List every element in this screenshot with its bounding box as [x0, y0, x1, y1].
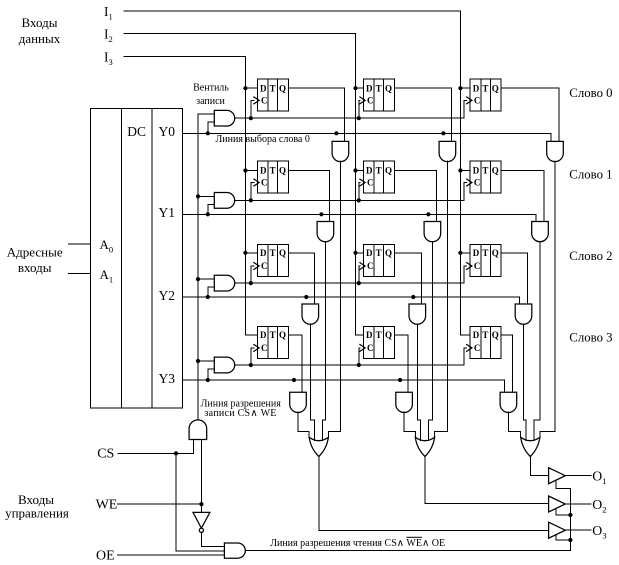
wire Q output word3 col3 — [501, 335, 512, 393]
wire address input A0 — [68, 243, 90, 245]
svg-text:Q: Q — [492, 83, 499, 93]
svg-text:Q: Q — [279, 330, 286, 340]
wire read out word3 col3 to OR — [508, 412, 520, 438]
svg-text:Q: Q — [385, 83, 392, 93]
node Y0 write-gate tap — [206, 131, 210, 135]
svg-text:T: T — [270, 248, 276, 258]
and-gate write W2 — [214, 275, 234, 291]
wire CS to read AND — [176, 453, 224, 551]
svg-text:C: C — [474, 178, 481, 188]
and-gate read word1 col3 — [532, 222, 549, 242]
wire D input col2 word2 — [356, 252, 364, 254]
svg-text:Y2: Y2 — [159, 288, 176, 303]
svg-text:T: T — [482, 83, 488, 93]
wire read out word2 col2 to OR — [417, 324, 420, 441]
flip-flop DTQ word2 col3 — [467, 245, 501, 277]
flip-flop DTQ word3 col1 — [254, 327, 288, 359]
node C tap col2 word1 — [357, 198, 361, 202]
flip-flop DTQ word0 col3 — [467, 79, 501, 111]
and-gate read word0 col1 — [332, 141, 349, 161]
and-gate read word2 col2 — [409, 304, 426, 324]
svg-text:CS: CS — [97, 447, 114, 462]
decoder divider 1 — [121, 108, 123, 408]
svg-text:C: C — [367, 178, 374, 188]
wire enable stub O1 — [556, 480, 570, 488]
wire enable stub O3 — [556, 535, 570, 540]
and-gate read word3 col2 — [396, 392, 413, 412]
flip-flop DTQ word0 col1 — [254, 79, 288, 111]
node data tap col2 word1 — [353, 168, 357, 172]
and-gate read word2 col1 — [302, 304, 319, 324]
svg-text:Q: Q — [385, 166, 392, 176]
node Y1 write-gate tap — [206, 212, 210, 216]
node Y2 read tap col2 — [411, 295, 415, 299]
svg-text:T: T — [482, 330, 488, 340]
wire read out word3 col1 to OR — [298, 412, 309, 438]
wire read out word0 col1 to OR — [328, 161, 340, 438]
wire enable stub O2 — [556, 509, 570, 516]
wire output O3 — [565, 529, 591, 531]
node Y2 read tap col1 — [304, 295, 308, 299]
flip-flop DTQ word3 col2 — [360, 327, 394, 359]
wire Q output word1 col2 — [394, 171, 436, 222]
wire Q output word0 col3 — [501, 88, 559, 141]
node Y3 read tap col2 — [398, 378, 402, 382]
wire C connect col1 word3 — [251, 348, 254, 365]
wire address input A1 — [68, 272, 90, 274]
svg-text:C: C — [261, 261, 268, 271]
svg-text:T: T — [376, 83, 382, 93]
svg-text:D: D — [473, 248, 480, 258]
wire read out word1 col3 to OR — [534, 241, 540, 440]
wire read out word1 col2 to OR — [429, 241, 433, 440]
wire WE vertical to inverter — [200, 440, 202, 513]
wire C connect col2 word1 — [359, 183, 360, 201]
svg-text:C: C — [367, 343, 374, 353]
node write-enable tap word1 — [196, 194, 200, 198]
wire D input col2 word0 — [356, 87, 364, 89]
wire Q output word2 col3 — [501, 253, 527, 304]
svg-text:D: D — [473, 166, 480, 176]
svg-text:Слово 2: Слово 2 — [569, 249, 612, 263]
wire Q output word1 col3 — [501, 171, 544, 222]
wire inverted WE to read AND — [201, 532, 224, 546]
wire output O1 — [565, 475, 591, 477]
node data tap col2 word2 — [353, 251, 357, 255]
node write-enable tap word2 — [196, 277, 200, 281]
wire D input col1 word1 — [245, 170, 257, 172]
svg-text:T: T — [270, 166, 276, 176]
svg-text:D: D — [366, 330, 373, 340]
svg-text:WE: WE — [96, 498, 118, 513]
svg-text:T: T — [270, 83, 276, 93]
wire word select line Y0 — [183, 133, 552, 141]
svg-text:D: D — [366, 166, 373, 176]
wire C connect col1 word0 — [251, 100, 254, 118]
svg-text:D: D — [260, 248, 267, 258]
and-gate read word3 col1 — [290, 392, 307, 412]
node CS tap — [174, 451, 178, 455]
svg-text:C: C — [474, 96, 481, 106]
svg-text:Адресные: Адресные — [7, 245, 63, 260]
node data tap col3 word2 — [458, 251, 462, 255]
or-gate column 2 — [415, 437, 434, 456]
node C tap col2 word0 — [357, 116, 361, 120]
wire write enable vertical — [197, 114, 199, 420]
svg-text:Q: Q — [492, 330, 499, 340]
node Y0 read tap col2 — [441, 131, 445, 135]
and-gate write W1 — [214, 193, 234, 209]
and-gate read enable — [224, 543, 245, 558]
wire read out word3 col2 to OR — [404, 412, 415, 438]
wire OR output col2 to buffer — [425, 457, 549, 504]
svg-text:записи CS∧ WE: записи CS∧ WE — [204, 408, 276, 419]
wire write gate W1 lower input from Y1 — [208, 204, 215, 214]
node C tap col1 word1 — [249, 198, 253, 202]
wire C connect col1 word2 — [251, 266, 254, 283]
node data tap col3 word1 — [458, 168, 462, 172]
node C tap col2 word2 — [357, 281, 361, 285]
and-gate read word1 col1 — [317, 222, 334, 242]
wire write word line 2 — [235, 266, 467, 283]
svg-text:Y1: Y1 — [159, 205, 176, 220]
svg-text:Q: Q — [385, 248, 392, 258]
wire enable chain vertical — [569, 488, 571, 550]
inverter WE — [193, 512, 210, 528]
wire word select line Y2 — [183, 297, 520, 304]
svg-text:C: C — [474, 343, 481, 353]
node data tap col1 word2 — [243, 251, 247, 255]
svg-text:Линия выбора слова 0: Линия выбора слова 0 — [216, 134, 310, 145]
node data tap col1 word1 — [243, 168, 247, 172]
node Y1 read tap col1 — [319, 212, 323, 216]
flip-flop DTQ word1 col2 — [360, 161, 394, 193]
svg-text:входы: входы — [18, 260, 52, 275]
wire write word line 0 — [235, 100, 467, 118]
wire write gate W1 upper input — [198, 195, 214, 197]
svg-text:D: D — [260, 166, 267, 176]
svg-text:Слово 0: Слово 0 — [569, 86, 612, 100]
node C tap col2 word3 — [357, 363, 361, 367]
wire read out word0 col2 to OR — [435, 161, 448, 438]
svg-text:D: D — [260, 83, 267, 93]
wire output O2 — [565, 503, 591, 505]
node enable O3 — [568, 538, 572, 542]
wire D input col1 word0 — [245, 87, 257, 89]
svg-text:Y0: Y0 — [159, 124, 176, 139]
svg-text:T: T — [482, 248, 488, 258]
or-gate column 1 — [309, 437, 328, 456]
wire write gate W2 upper input — [198, 278, 214, 280]
decoder divider 2 — [151, 108, 153, 408]
svg-text:C: C — [261, 178, 268, 188]
wire WE input — [118, 503, 202, 505]
wire word select line Y1 — [183, 214, 537, 221]
wire Q output word2 col1 — [288, 253, 314, 304]
wire OE input — [118, 554, 225, 556]
svg-text:T: T — [376, 330, 382, 340]
node C tap col1 word2 — [249, 281, 253, 285]
wire Q output word0 col1 — [288, 88, 344, 141]
wire write word line 3 — [235, 348, 467, 365]
wire read out word2 col1 to OR — [310, 324, 314, 441]
wire C connect col2 word2 — [359, 266, 360, 283]
or-gate column 3 — [521, 437, 540, 456]
node write-enable tap word3 — [196, 359, 200, 363]
wire write gate W3 upper input — [198, 360, 214, 362]
node C tap col1 word3 — [249, 363, 253, 367]
svg-text:Q: Q — [385, 330, 392, 340]
svg-text:T: T — [376, 248, 382, 258]
wire write gate W2 lower input from Y2 — [208, 287, 215, 297]
svg-text:Слово 1: Слово 1 — [569, 168, 612, 182]
wire OR output col1 to buffer — [319, 457, 549, 531]
svg-text:управления: управления — [5, 506, 69, 521]
svg-text:Q: Q — [279, 166, 286, 176]
svg-text:D: D — [366, 248, 373, 258]
wire write gate W3 lower input from Y3 — [208, 369, 215, 380]
and-gate write W3 — [214, 357, 234, 373]
svg-text:данных: данных — [19, 31, 61, 46]
wire C connect col2 word3 — [359, 348, 360, 365]
node data tap col1 word0 — [243, 86, 247, 90]
node Y3 write-gate tap — [206, 378, 210, 382]
svg-text:D: D — [366, 83, 373, 93]
wire CS input — [118, 440, 193, 454]
node Y2 write-gate tap — [206, 295, 210, 299]
wire Q output word3 col1 — [288, 335, 302, 393]
svg-text:DC: DC — [127, 124, 146, 139]
svg-text:C: C — [367, 96, 374, 106]
svg-text:T: T — [270, 330, 276, 340]
wire read out word2 col3 to OR — [524, 324, 526, 441]
flip-flop DTQ word1 col1 — [254, 161, 288, 193]
buffer O2 — [549, 496, 566, 512]
svg-text:T: T — [482, 166, 488, 176]
buffer O1 — [549, 468, 566, 484]
flip-flop DTQ word0 col2 — [360, 79, 394, 111]
and-gate read word1 col2 — [424, 222, 441, 242]
svg-text:Q: Q — [492, 166, 499, 176]
and-gate read word0 col2 — [439, 141, 456, 161]
and-gate read word2 col3 — [515, 304, 532, 324]
svg-text:записи: записи — [196, 96, 225, 107]
svg-text:C: C — [367, 261, 374, 271]
decoder DC box — [91, 108, 183, 408]
flip-flop DTQ word2 col2 — [360, 245, 394, 277]
wire word select line Y3 — [183, 380, 505, 392]
node enable O2 — [568, 513, 572, 517]
wire D input col3 word0 — [460, 87, 470, 89]
wire Q output word0 col2 — [394, 88, 451, 141]
and-gate read word3 col3 — [500, 392, 517, 412]
svg-text:C: C — [474, 261, 481, 271]
svg-text:Линия разрешения чтения CS∧ WE: Линия разрешения чтения CS∧ WE∧ OE — [270, 538, 445, 549]
svg-text:D: D — [473, 330, 480, 340]
node data tap col2 word0 — [353, 86, 357, 90]
and-gate read word0 col3 — [547, 141, 564, 161]
node Y0 read tap col1 — [334, 131, 338, 135]
svg-text:Y3: Y3 — [159, 371, 176, 386]
wire C connect col2 word0 — [359, 100, 360, 118]
node C tap col1 word0 — [249, 116, 253, 120]
node Y1 read tap col2 — [426, 212, 430, 216]
svg-text:OE: OE — [96, 548, 115, 563]
svg-text:Вентиль: Вентиль — [193, 82, 229, 93]
flip-flop DTQ word2 col1 — [254, 245, 288, 277]
svg-text:C: C — [261, 343, 268, 353]
wire read out word0 col3 to OR — [540, 161, 555, 438]
wire read out word1 col1 to OR — [323, 241, 326, 440]
wire D input col2 word1 — [356, 170, 364, 172]
svg-text:D: D — [473, 83, 480, 93]
wire C connect col1 word1 — [251, 183, 254, 201]
wire Q output word2 col2 — [394, 253, 421, 304]
wire I3 data line and column vertical — [124, 57, 257, 335]
and-gate write enable CS WE — [189, 420, 207, 440]
svg-text:D: D — [260, 330, 267, 340]
wire write word line 1 — [235, 183, 467, 201]
svg-text:Q: Q — [492, 248, 499, 258]
wire write gate W0 lower input from Y0 — [208, 122, 215, 133]
svg-text:Входы: Входы — [22, 15, 58, 30]
svg-text:Q: Q — [279, 248, 286, 258]
wire D input col3 word1 — [460, 170, 470, 172]
wire Q output word3 col2 — [394, 335, 408, 393]
flip-flop DTQ word1 col3 — [467, 161, 501, 193]
wire Q output word1 col1 — [288, 171, 329, 222]
node WE tap — [199, 502, 203, 506]
flip-flop DTQ word3 col3 — [467, 327, 501, 359]
svg-text:Q: Q — [279, 83, 286, 93]
node data tap col3 word0 — [458, 86, 462, 90]
wire read enable line — [245, 550, 570, 552]
svg-text:C: C — [261, 96, 268, 106]
wire D input col1 word2 — [245, 252, 257, 254]
wire OR output col3 to buffer — [530, 457, 548, 476]
wire write gate W0 upper input — [198, 113, 214, 115]
svg-text:T: T — [376, 166, 382, 176]
and-gate write W0 — [214, 110, 234, 126]
svg-text:Слово 3: Слово 3 — [569, 330, 612, 344]
wire I1 data line and column vertical — [124, 11, 470, 335]
wire I2 data line and column vertical — [124, 34, 363, 335]
wire D input col3 word2 — [460, 252, 470, 254]
buffer O3 — [549, 522, 566, 538]
node Y3 read tap col1 — [292, 378, 296, 382]
